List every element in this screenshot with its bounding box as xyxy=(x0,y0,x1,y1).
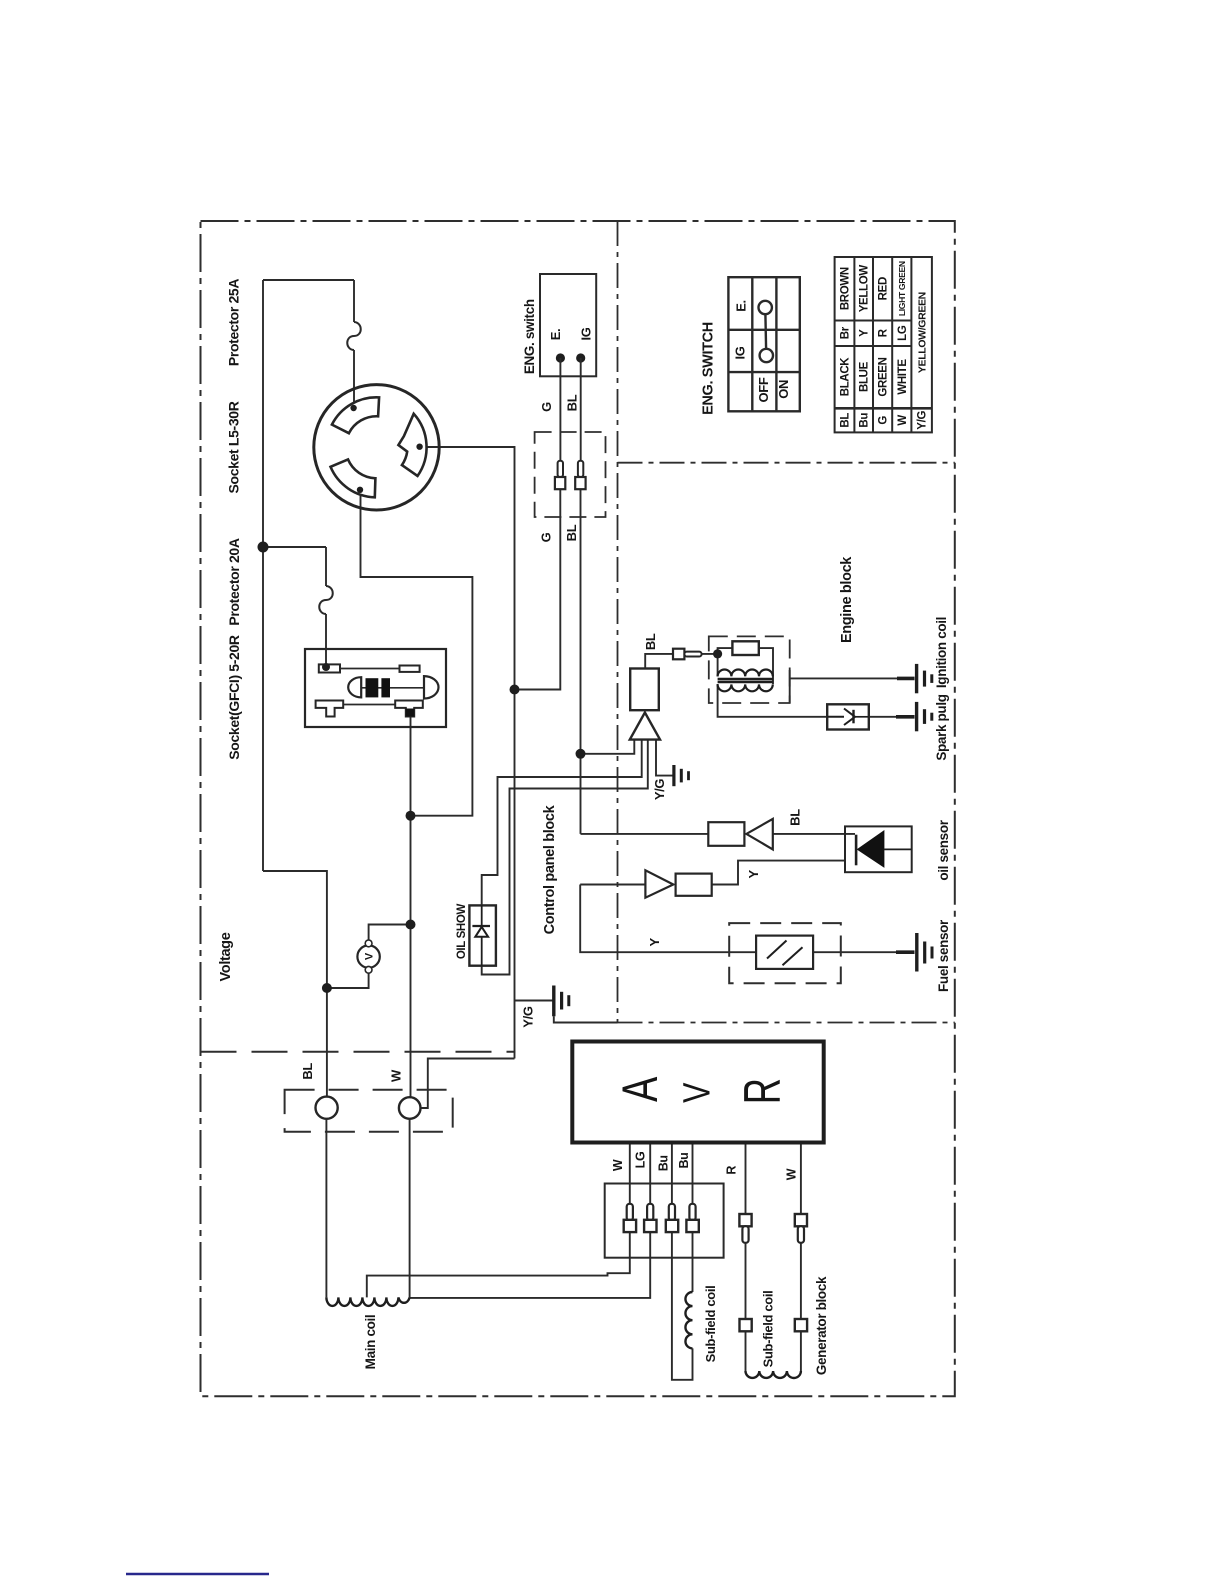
svg-text:BL: BL xyxy=(565,394,580,411)
GFCI left D contact xyxy=(348,677,361,697)
bullet connector male pin xyxy=(684,652,701,657)
wire colour code table grid xyxy=(835,257,932,432)
protector 25A breaker squiggle xyxy=(347,322,361,350)
junction node dot (voltmeter bottom tap) xyxy=(322,983,332,993)
wire protector25A to socket xyxy=(353,280,355,322)
wire main coil centre tap to AVR W pin xyxy=(367,1232,630,1297)
svg-text:Y/G: Y/G xyxy=(520,1006,535,1028)
wire Bu1 to sub-field coil xyxy=(672,1232,693,1380)
svg-text:Y: Y xyxy=(647,937,662,946)
inline coupler square R xyxy=(740,1319,752,1331)
svg-text:R: R xyxy=(734,1078,792,1104)
connector block dashed box (ENG switch leads) xyxy=(535,432,606,517)
svg-text:V: V xyxy=(363,952,375,960)
ignition coil dashed boundary box xyxy=(709,636,790,703)
ENG switch terminal dot E xyxy=(556,353,565,362)
junction node dot (ignition primary) xyxy=(713,649,722,658)
terminal dashed box xyxy=(285,1090,453,1132)
svg-text:E.: E. xyxy=(734,300,749,312)
connector pin W right (inverted) xyxy=(795,1214,807,1226)
svg-text:BL: BL xyxy=(788,809,803,826)
svg-text:Control panel block: Control panel block xyxy=(542,804,558,934)
svg-text:R: R xyxy=(724,1166,738,1175)
protector 20A breaker squiggle xyxy=(319,586,333,614)
decorative blue rule (page footer link) xyxy=(126,1573,269,1575)
wire top feed horizontal xyxy=(263,279,354,281)
GFCI T slot bottom-right xyxy=(395,701,423,717)
svg-text:LG: LG xyxy=(634,1152,648,1169)
wire left feed vertical xyxy=(262,280,264,871)
voltmeter bottom terminal xyxy=(365,966,372,973)
fuel sensor slash 2 xyxy=(783,947,803,965)
wire ignition coil ground lead xyxy=(790,677,897,679)
fuel sensor box xyxy=(756,936,813,969)
AVR box xyxy=(572,1042,823,1143)
wire pair2 to oil sensor box xyxy=(712,861,845,885)
oil sensor diode triangle xyxy=(858,831,884,867)
voltmeter body xyxy=(357,945,379,967)
wire secondary to spark plug xyxy=(718,684,828,717)
svg-text:WHITE: WHITE xyxy=(897,359,909,395)
svg-text:Main coil: Main coil xyxy=(363,1315,378,1370)
svg-text:ON: ON xyxy=(776,380,791,399)
GFCI wire between T slots xyxy=(343,704,395,706)
wire AVR Bu pin 1 upper xyxy=(671,1143,673,1204)
fuel sensor slash 1 xyxy=(767,941,787,959)
socket pin dot top xyxy=(350,405,356,411)
svg-text:OFF: OFF xyxy=(756,377,771,402)
svg-text:BL: BL xyxy=(840,413,852,428)
svg-text:A: A xyxy=(612,1076,668,1102)
svg-text:Y/G: Y/G xyxy=(917,411,929,430)
wire W2 pin to coupler xyxy=(800,1243,802,1319)
svg-text:Generator block: Generator block xyxy=(814,1276,829,1375)
wire to Y/G ground (control panel) xyxy=(515,1000,554,1002)
ignition transformer secondary winding xyxy=(718,684,773,691)
svg-text:W: W xyxy=(784,1168,798,1180)
socket L5-30R right slot with hook xyxy=(398,414,426,476)
svg-text:Engine block: Engine block xyxy=(839,556,855,643)
AVR connector box xyxy=(605,1184,724,1258)
connector pin BL xyxy=(578,461,583,477)
GFCI reset button black xyxy=(381,678,390,697)
wire voltmeter bottom xyxy=(327,972,369,989)
svg-text:Bu: Bu xyxy=(859,413,871,428)
ignition resistor box xyxy=(732,641,758,655)
ground symbol (spark plug) xyxy=(896,702,932,731)
oil sensor box xyxy=(845,826,912,872)
wire Y branch down to fuel sensor xyxy=(580,885,756,953)
svg-text:G: G xyxy=(539,532,554,542)
connector plug triangle (oil sensor BL) xyxy=(746,819,772,850)
connector socket (oil sensor BL) xyxy=(708,822,744,846)
junction node dot (GFCI neutral / socket wire) xyxy=(406,811,416,821)
wire socket right slot to panel xyxy=(420,447,515,690)
wire W terminal to main coil xyxy=(409,1119,411,1298)
svg-text:YELLOW: YELLOW xyxy=(859,265,871,313)
oil sensor diode cathode bar xyxy=(855,835,858,866)
switch contact connecting bar xyxy=(764,314,767,349)
svg-text:W: W xyxy=(389,1069,404,1082)
svg-text:LIGHT GREEN: LIGHT GREEN xyxy=(897,261,907,316)
wire G from switch xyxy=(559,358,561,461)
svg-text:BROWN: BROWN xyxy=(840,267,852,310)
GFCI neutral slot top-left xyxy=(319,664,340,672)
wire resistor right to coil right xyxy=(759,648,773,684)
wire BL tap to CDI xyxy=(581,740,635,754)
wire oil-show top loop xyxy=(482,740,642,906)
main coil winding xyxy=(326,1297,409,1306)
wire socket bottom slot down xyxy=(361,490,473,816)
bullet connector (CDI lead) xyxy=(673,649,684,660)
svg-text:Sub-field coil: Sub-field coil xyxy=(761,1291,776,1368)
GFCI wire between mid contacts xyxy=(361,687,424,689)
svg-text:LG: LG xyxy=(897,325,909,341)
connector pin Bu1 xyxy=(669,1204,675,1221)
svg-text:E.: E. xyxy=(548,329,563,341)
svg-text:V: V xyxy=(676,1082,718,1103)
wire oil sensor connector to sensor box xyxy=(773,833,855,835)
wire main coil right to LG pin xyxy=(410,1232,651,1298)
outer dash-dot border frame of diagram xyxy=(201,221,955,1396)
inline coupler square W xyxy=(795,1319,807,1331)
junction node dot (G wire to socket column) xyxy=(510,685,520,695)
ground symbol (fuel sensor) xyxy=(896,933,932,972)
svg-text:W: W xyxy=(611,1159,625,1171)
svg-text:OIL SHOW: OIL SHOW xyxy=(456,904,468,960)
colour table texts column 1 xyxy=(840,261,929,430)
OIL SHOW lamp box xyxy=(469,905,496,965)
svg-text:BL: BL xyxy=(564,524,579,541)
connector pin Bu2 xyxy=(689,1204,695,1221)
connector pin W xyxy=(627,1204,633,1221)
connector pin R (inverted) xyxy=(739,1214,751,1226)
wire junction to protector 20A xyxy=(263,546,326,548)
spark plug box xyxy=(827,704,869,729)
wire BL to oil sensor connector xyxy=(581,833,709,835)
svg-text:Bu: Bu xyxy=(677,1153,691,1169)
connector plug triangle (Y lead) xyxy=(645,870,673,897)
ground symbol Y/G (control panel) xyxy=(554,986,569,1017)
socket L5-30R top slot xyxy=(332,397,379,433)
right sub-field coil winding (horizontal) xyxy=(745,1371,800,1378)
wire Y line from fuel branch to connector pair 2 xyxy=(580,884,645,886)
GFCI wire between top slots xyxy=(340,668,400,670)
svg-text:GREEN: GREEN xyxy=(878,357,890,396)
left sub-field coil winding (vertical) xyxy=(685,1292,692,1348)
svg-text:Y: Y xyxy=(859,329,871,337)
wire BL terminal to main coil xyxy=(325,1119,327,1298)
svg-text:Fuel sensor: Fuel sensor xyxy=(936,919,951,992)
wire CDI pin 4 to Y/G ground xyxy=(656,740,673,776)
junction node dot (voltmeter top tap) xyxy=(406,920,416,930)
wire AVR W pin upper xyxy=(629,1143,631,1204)
svg-text:W: W xyxy=(897,415,909,426)
wire oil-show bottom loop xyxy=(482,740,648,975)
wire node to resistor xyxy=(718,648,733,654)
wire spark plug to ground xyxy=(869,716,896,718)
svg-text:ENG. SWITCH: ENG. SWITCH xyxy=(701,322,717,415)
GFCI socket box xyxy=(305,649,446,727)
svg-text:Br: Br xyxy=(840,326,852,339)
wire G below connector xyxy=(515,489,561,689)
OIL SHOW LED diode xyxy=(472,905,490,965)
ENG switch box xyxy=(540,274,596,376)
svg-text:Socket(GFCI) 5-20R: Socket(GFCI) 5-20R xyxy=(226,635,242,760)
terminal circle W xyxy=(399,1097,421,1119)
CDI connector triangle xyxy=(630,713,660,740)
block partition: vertical dash-dot line x=617.5 xyxy=(617,221,619,1023)
svg-text:Voltage: Voltage xyxy=(218,932,234,981)
svg-text:BLUE: BLUE xyxy=(859,361,871,392)
GFCI right D contact xyxy=(424,676,439,698)
svg-text:oil sensor: oil sensor xyxy=(936,819,951,880)
GFCI test button black xyxy=(366,678,379,697)
CDI unit box xyxy=(630,669,659,711)
svg-text:G: G xyxy=(878,416,890,425)
svg-text:RED: RED xyxy=(878,277,890,300)
ignition transformer core xyxy=(718,678,773,681)
wire AVR LG pin upper xyxy=(649,1143,651,1204)
svg-text:IG: IG xyxy=(579,327,594,340)
wire bullet to ignition node xyxy=(702,653,718,655)
wire fuel sensor to ground xyxy=(813,951,896,953)
socket L5-30R bottom slot xyxy=(331,459,376,497)
svg-text:YELLOW/GREEN: YELLOW/GREEN xyxy=(916,292,928,373)
svg-text:Spark pulg: Spark pulg xyxy=(934,694,949,760)
wire BL from switch xyxy=(580,358,582,461)
wire AVR W2 pin upper xyxy=(800,1143,802,1215)
oil sensor diode lead xyxy=(884,848,912,850)
connector socket (Y lead) xyxy=(676,874,712,896)
switch contact circle E xyxy=(759,301,772,314)
terminal circle BL xyxy=(316,1097,338,1119)
wire voltmeter top xyxy=(369,925,411,942)
svg-text:Y/G: Y/G xyxy=(652,779,667,801)
wire node down to primary coil xyxy=(717,654,719,677)
svg-text:Sub-field coil: Sub-field coil xyxy=(703,1286,718,1363)
GFCI bottom-right slot filled pin xyxy=(406,709,414,717)
junction node dot (BL to CDI tap) xyxy=(576,749,586,759)
junction node dot (protector 20A tap) xyxy=(258,542,269,553)
GFCI T slot bottom-left xyxy=(316,701,344,717)
connector pin G xyxy=(555,461,586,489)
svg-text:Protector 20A: Protector 20A xyxy=(226,538,242,625)
spark plug gap symbol xyxy=(827,709,869,726)
wire W2 coupler to coil xyxy=(800,1331,802,1371)
GFCI neutral slot top-right xyxy=(400,666,420,672)
svg-text:R: R xyxy=(878,328,890,337)
svg-text:ENG. switch: ENG. switch xyxy=(522,299,537,374)
wire R pin to coupler xyxy=(745,1243,747,1319)
switch contact circle IG xyxy=(760,349,773,362)
svg-text:BLACK: BLACK xyxy=(840,357,852,397)
svg-text:Y: Y xyxy=(746,869,761,878)
svg-text:BL: BL xyxy=(300,1063,315,1080)
wire W terminal link xyxy=(420,1059,514,1109)
svg-text:BL: BL xyxy=(643,633,658,650)
block partition: horizontal dash-dot line y=1022.5 (generator block top) xyxy=(618,1022,955,1024)
wire G/socket column down to ground tap and W terminal xyxy=(514,690,516,1059)
GFCI top feed pin dot xyxy=(322,663,330,671)
wire AVR Bu pin 2 upper xyxy=(692,1143,694,1204)
voltmeter top terminal xyxy=(365,940,372,947)
wire ground to generator boundary xyxy=(554,1016,618,1022)
wire BL below connector xyxy=(580,489,582,834)
block partition: horizontal dash-dot line y=462.7 xyxy=(618,462,955,464)
ignition transformer primary winding xyxy=(718,670,773,677)
ENG switch position table grid xyxy=(728,277,799,411)
wire AVR R pin upper xyxy=(745,1143,747,1215)
wire CDI to bullet connector xyxy=(645,654,673,669)
ground symbol (ignition coil) xyxy=(897,664,932,693)
svg-text:Socket L5-30R: Socket L5-30R xyxy=(225,401,241,493)
ground symbol Y/G (engine CDI) xyxy=(674,765,689,786)
wire Bu2 above coil xyxy=(692,1232,694,1292)
svg-text:IG: IG xyxy=(733,346,748,359)
svg-text:Protector 25A: Protector 25A xyxy=(225,279,241,366)
fuel sensor dashed boundary xyxy=(729,923,841,983)
block partition: dashed line y=1051.7 (control panel / generator boundary) xyxy=(201,1051,516,1053)
svg-text:Ignition coil: Ignition coil xyxy=(934,617,949,688)
svg-text:G: G xyxy=(539,402,554,412)
connector pin LG xyxy=(647,1204,653,1221)
wire R coupler to right sub-field coil xyxy=(745,1331,747,1371)
wire jog to BL column xyxy=(263,871,327,1097)
socket pin dot bottom xyxy=(357,487,363,493)
ENG switch terminal dot IG xyxy=(576,353,585,362)
wire GFCI bottom to W terminal xyxy=(410,717,412,1098)
svg-text:Bu: Bu xyxy=(657,1155,671,1171)
socket L5-30R body circle xyxy=(314,385,439,510)
socket pin dot right xyxy=(416,444,422,450)
